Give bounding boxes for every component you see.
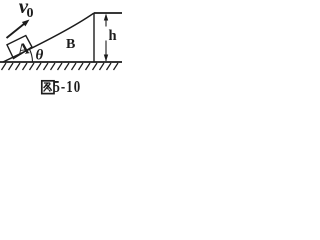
- svg-text:h: h: [109, 28, 117, 44]
- svg-text:5-10: 5-10: [53, 78, 81, 96]
- svg-text:0: 0: [27, 6, 34, 21]
- svg-text:θ: θ: [36, 48, 44, 64]
- svg-text:B: B: [66, 37, 75, 52]
